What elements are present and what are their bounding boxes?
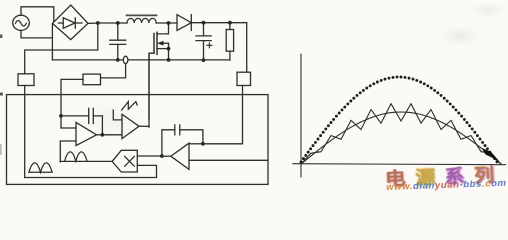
scan edge artifacts (decorative) <box>0 35 3 156</box>
signal icon rectified sine on wire <box>65 152 87 161</box>
dotted reference sine curve <box>300 76 499 164</box>
graph y-axis <box>300 54 302 177</box>
node MOSFET source <box>167 47 171 51</box>
ground return rail <box>52 59 230 61</box>
inductor current waveform smooth <box>301 112 501 164</box>
node C1 bottom <box>116 58 120 62</box>
watermark line 1 <box>385 160 508 191</box>
paper smudge marks <box>440 25 480 47</box>
sawtooth ramp icon <box>122 102 138 110</box>
bridge rectifier D1-D4 <box>52 5 88 40</box>
IC boundary box <box>7 95 269 185</box>
diode D5 boost <box>177 15 191 31</box>
wire multiplier lower input from R1 route <box>25 165 157 177</box>
wire R1 down through IC box to multiplier route <box>24 86 26 178</box>
capacitor C3 U1 feedback <box>61 108 102 135</box>
capacitor C4 U3 feedback <box>162 125 203 156</box>
multiplier M1 <box>112 150 137 172</box>
node load top <box>228 21 232 25</box>
node U3 upper input <box>201 142 205 146</box>
wire U3 lower input <box>189 159 268 161</box>
node C2 bottom <box>202 58 206 62</box>
wire current sense tap to block R4 <box>101 64 126 78</box>
wire output to feedback block <box>246 23 248 72</box>
resistor R2 load <box>226 23 233 60</box>
node source-rail <box>167 58 171 62</box>
wire R3 down and left to error amp input <box>203 86 243 144</box>
wire PWM output to gate <box>148 53 150 127</box>
capacitor C1 input filter <box>110 23 126 60</box>
cursor arrow mark <box>482 148 499 161</box>
watermark line 2 <box>386 178 507 193</box>
wire multiplier output to U1 input <box>60 160 112 162</box>
block R4 current sense <box>83 74 101 85</box>
node drain junction <box>167 21 171 25</box>
wire bridge left corner down to ground rail <box>51 25 53 60</box>
wire inductor to diode <box>156 22 177 24</box>
signal icon line current <box>29 163 52 172</box>
AC source V1 <box>13 15 30 30</box>
capacitor C2 output (electrolytic) <box>196 23 212 60</box>
node multiplier input <box>160 154 164 158</box>
op-amp U2 PWM comparator <box>102 110 149 138</box>
node A current amp input <box>59 114 63 118</box>
node C1 top <box>116 21 120 25</box>
node U1 output <box>101 133 105 137</box>
block R3 output voltage sense <box>237 72 251 85</box>
graph x-axis <box>293 164 506 165</box>
inductor L1 <box>127 15 157 23</box>
MOSFET Q1 <box>149 23 169 119</box>
inductor current waveform ripple <box>301 104 501 164</box>
node C2 top <box>202 21 206 25</box>
current sense element <box>123 56 128 63</box>
wire R4 left and down to node A <box>61 79 83 116</box>
op-amp U3 voltage error amp (left-pointing) <box>162 143 189 169</box>
wire bridge output to inductor <box>88 22 127 24</box>
wire input-voltage sense: down, left, to block R1 <box>25 23 98 74</box>
op-amp U1 current error amp <box>60 116 102 162</box>
block R1 input voltage sense <box>18 74 34 86</box>
wire U3 upper input <box>189 143 203 145</box>
wire AC bottom <box>21 30 52 38</box>
wire AC top to bridge <box>21 7 54 21</box>
node bridge output <box>96 21 100 25</box>
wire diode to output <box>191 22 246 24</box>
wire multiplier upper input from error amp <box>137 155 162 157</box>
